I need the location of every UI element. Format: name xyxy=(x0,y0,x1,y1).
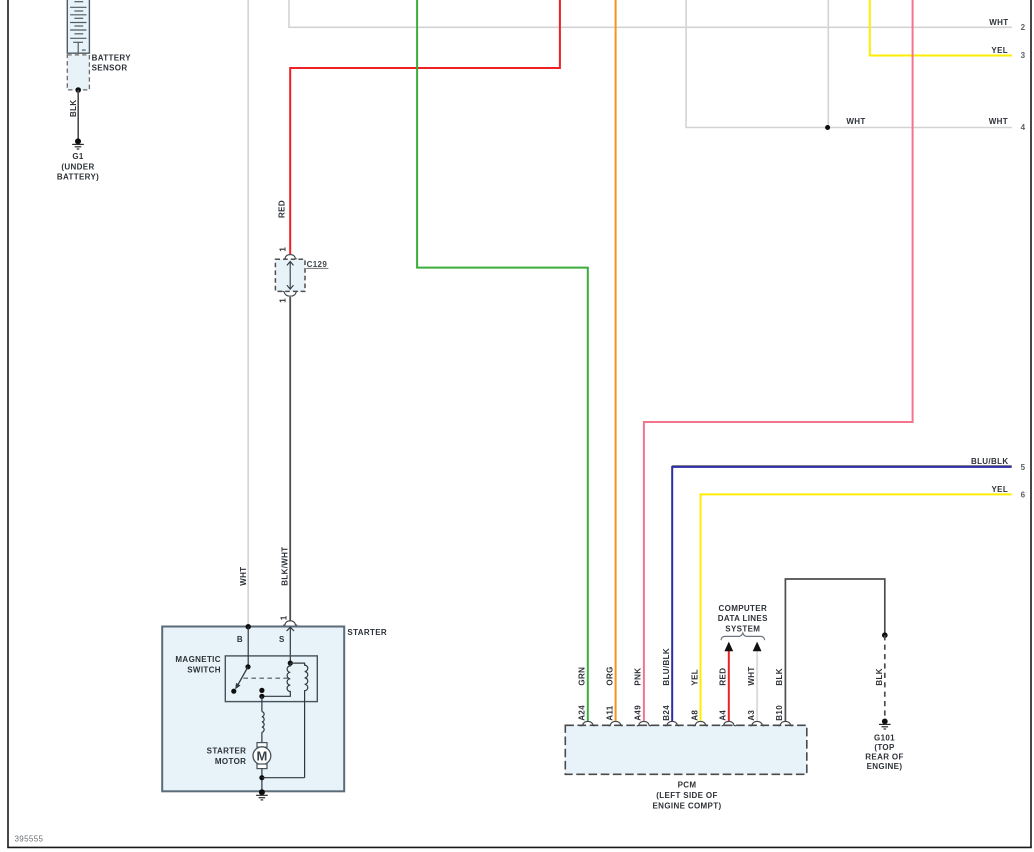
wire WHT to starter terminal B xyxy=(247,0,249,627)
arrow WHT xyxy=(753,642,762,652)
label MAGNETIC SWITCH xyxy=(175,655,220,675)
terminal B dot xyxy=(246,624,251,629)
label G1 (UNDER BATTERY) xyxy=(57,152,99,181)
wire YEL 3 xyxy=(870,0,1012,56)
svg-text:WHT: WHT xyxy=(747,666,756,685)
wire ORG xyxy=(615,0,617,722)
PCM connector box xyxy=(565,725,807,774)
label YEL line 6 xyxy=(991,485,1008,494)
label S xyxy=(279,635,285,644)
svg-text:MAGNETIC: MAGNETIC xyxy=(175,655,220,664)
label PCM (LEFT SIDE OF ENGINE COMPT) xyxy=(653,780,722,810)
label GRN wire xyxy=(578,667,587,686)
svg-text:BLK: BLK xyxy=(775,668,784,686)
pin A3 xyxy=(747,710,756,721)
wire motor to junction xyxy=(261,769,263,793)
label 4 xyxy=(1021,123,1026,132)
wire RED to PCM A4 xyxy=(728,651,730,722)
label B xyxy=(237,635,243,644)
label ORG wire xyxy=(605,666,614,685)
svg-text:STARTER: STARTER xyxy=(347,628,387,637)
svg-text:BATTERY: BATTERY xyxy=(92,53,132,62)
switch dashed actuator line xyxy=(243,677,289,679)
label WHT line 4 left xyxy=(846,117,865,126)
ground starter xyxy=(256,789,268,800)
svg-text:PNK: PNK xyxy=(634,668,643,686)
label BATTERY SENSOR xyxy=(92,53,132,72)
starter motor M xyxy=(253,743,271,769)
connector arc starter S xyxy=(283,621,297,626)
label BLK G101 xyxy=(875,668,884,686)
svg-text:(UNDER: (UNDER xyxy=(61,163,94,172)
svg-text:B24: B24 xyxy=(662,705,671,721)
label 5 xyxy=(1021,463,1026,472)
pin A4 xyxy=(719,710,728,721)
wire BLU/BLK 5 xyxy=(672,466,1012,722)
wire YEL 6 xyxy=(701,494,1012,721)
label YEL wire xyxy=(690,669,699,686)
svg-text:B: B xyxy=(237,635,243,644)
svg-text:ENGINE COMPT): ENGINE COMPT) xyxy=(653,802,722,811)
label YEL line 3 xyxy=(991,46,1008,55)
wire GRN xyxy=(417,0,588,722)
wire WHT 4 xyxy=(685,0,1012,128)
svg-text:(TOP: (TOP xyxy=(874,743,895,752)
svg-text:A4: A4 xyxy=(719,710,728,721)
svg-text:395555: 395555 xyxy=(15,835,44,844)
label RED wire xyxy=(719,668,728,686)
junction dot motor return xyxy=(259,775,264,780)
svg-text:C129: C129 xyxy=(307,260,328,269)
svg-text:1: 1 xyxy=(278,247,287,252)
arrow RED xyxy=(724,642,733,652)
svg-text:DATA LINES: DATA LINES xyxy=(718,614,768,623)
wire BLK/WHT xyxy=(289,297,291,621)
svg-text:5: 5 xyxy=(1021,463,1026,472)
svg-text:REAR OF: REAR OF xyxy=(865,753,903,762)
wire WHT to PCM A3 xyxy=(756,651,758,722)
wire switch to motor coil xyxy=(261,696,263,711)
wire WHT 2 xyxy=(288,0,1012,27)
switch contacts xyxy=(231,627,250,694)
label BLK xyxy=(69,100,78,118)
wire PNK xyxy=(644,0,913,722)
svg-text:ENGINE): ENGINE) xyxy=(867,762,903,771)
connector C129 xyxy=(275,255,305,297)
svg-text:BLU/BLK: BLU/BLK xyxy=(971,457,1009,466)
label BLU/BLK wire xyxy=(662,648,671,686)
svg-text:4: 4 xyxy=(1021,123,1026,132)
svg-text:2: 2 xyxy=(1021,23,1026,32)
pin 1 bottom C129 xyxy=(278,298,287,303)
svg-text:1: 1 xyxy=(280,615,289,620)
svg-text:COMPUTER: COMPUTER xyxy=(719,604,768,613)
starter box xyxy=(162,627,344,792)
svg-text:BLU/BLK: BLU/BLK xyxy=(662,648,671,686)
svg-text:S: S xyxy=(279,635,285,644)
svg-text:YEL: YEL xyxy=(991,485,1008,494)
svg-text:BATTERY): BATTERY) xyxy=(57,173,99,182)
pin A8 xyxy=(690,710,699,721)
pin B24 xyxy=(662,705,671,721)
battery xyxy=(67,0,89,53)
label BLU/BLK line 5 xyxy=(971,457,1009,466)
svg-text:1: 1 xyxy=(278,298,287,303)
pin A11 xyxy=(605,705,614,720)
junction dot battery sensor xyxy=(75,87,81,93)
svg-text:BLK: BLK xyxy=(875,668,884,686)
label WHT line 4 right xyxy=(989,117,1008,126)
svg-text:G1: G1 xyxy=(72,152,84,161)
PCM connector pin arcs xyxy=(581,721,793,725)
ground G101 xyxy=(879,719,891,730)
wire BLK B10 xyxy=(785,579,884,722)
pin B10 xyxy=(775,705,784,721)
label STARTER MOTOR xyxy=(207,747,247,767)
svg-text:B10: B10 xyxy=(775,705,784,721)
label 2 xyxy=(1021,23,1026,32)
hold-in coil and return wire xyxy=(290,663,308,778)
svg-text:SENSOR: SENSOR xyxy=(92,64,128,73)
field coil xyxy=(262,712,264,733)
label STARTER xyxy=(347,628,387,637)
svg-text:RED: RED xyxy=(277,200,286,218)
svg-text:(LEFT SIDE OF: (LEFT SIDE OF xyxy=(656,791,717,800)
brace computer data lines xyxy=(721,633,765,640)
svg-text:MOTOR: MOTOR xyxy=(215,757,246,766)
junction dot WHT 4 xyxy=(825,125,830,130)
label C129 xyxy=(306,260,328,269)
svg-text:BLK: BLK xyxy=(69,100,78,118)
svg-text:WHT: WHT xyxy=(239,567,248,586)
pin A24 xyxy=(578,705,587,721)
label BLK/WHT xyxy=(280,546,289,585)
battery sensor xyxy=(67,55,89,90)
switch output dots xyxy=(259,688,264,699)
label 3 xyxy=(1021,51,1026,60)
label 6 xyxy=(1021,490,1026,499)
wire BLK dashed to G101 xyxy=(884,635,886,721)
svg-text:M: M xyxy=(256,748,267,763)
label COMPUTER DATA LINES SYSTEM xyxy=(718,604,768,633)
pin A49 xyxy=(634,705,643,721)
wire BLK to G1 xyxy=(77,90,79,141)
svg-text:3: 3 xyxy=(1021,51,1026,60)
wire coil to motor xyxy=(261,732,263,742)
svg-text:6: 6 xyxy=(1021,490,1026,499)
label WHT line 2 xyxy=(989,18,1008,27)
svg-text:WHT: WHT xyxy=(989,18,1008,27)
svg-text:GRN: GRN xyxy=(578,667,587,686)
svg-text:A8: A8 xyxy=(690,710,699,721)
pin 1 starter S xyxy=(280,615,289,620)
svg-text:A49: A49 xyxy=(634,705,643,721)
wire coil return xyxy=(262,777,305,779)
magnetic switch box xyxy=(225,656,317,702)
label WHT vertical xyxy=(239,567,248,586)
wire S to coil xyxy=(287,627,294,663)
svg-text:WHT: WHT xyxy=(989,117,1008,126)
svg-text:ORG: ORG xyxy=(605,666,614,685)
svg-text:WHT: WHT xyxy=(846,117,865,126)
ground G1 xyxy=(72,138,84,149)
label WHT wire xyxy=(747,666,756,685)
svg-text:RED: RED xyxy=(719,668,728,686)
svg-text:STARTER: STARTER xyxy=(207,747,247,756)
svg-text:A3: A3 xyxy=(747,710,756,721)
label 395555 xyxy=(15,835,44,844)
pull-in coil xyxy=(262,661,293,697)
label RED xyxy=(277,200,286,218)
svg-text:A11: A11 xyxy=(605,705,614,720)
label G101 (TOP REAR OF ENGINE) xyxy=(865,733,903,771)
svg-text:A24: A24 xyxy=(578,705,587,721)
svg-text:YEL: YEL xyxy=(690,669,699,686)
svg-text:YEL: YEL xyxy=(991,46,1008,55)
wire WHT drop to junction xyxy=(827,0,829,128)
svg-text:BLK/WHT: BLK/WHT xyxy=(280,546,289,585)
label BLK wire xyxy=(775,668,784,686)
pin 1 top C129 xyxy=(278,247,287,252)
junction dot BLK xyxy=(882,632,888,638)
wire RED xyxy=(290,0,560,255)
svg-text:SWITCH: SWITCH xyxy=(187,666,221,675)
svg-text:PCM: PCM xyxy=(678,780,697,789)
svg-text:G101: G101 xyxy=(874,733,895,742)
label PNK wire xyxy=(634,668,643,686)
